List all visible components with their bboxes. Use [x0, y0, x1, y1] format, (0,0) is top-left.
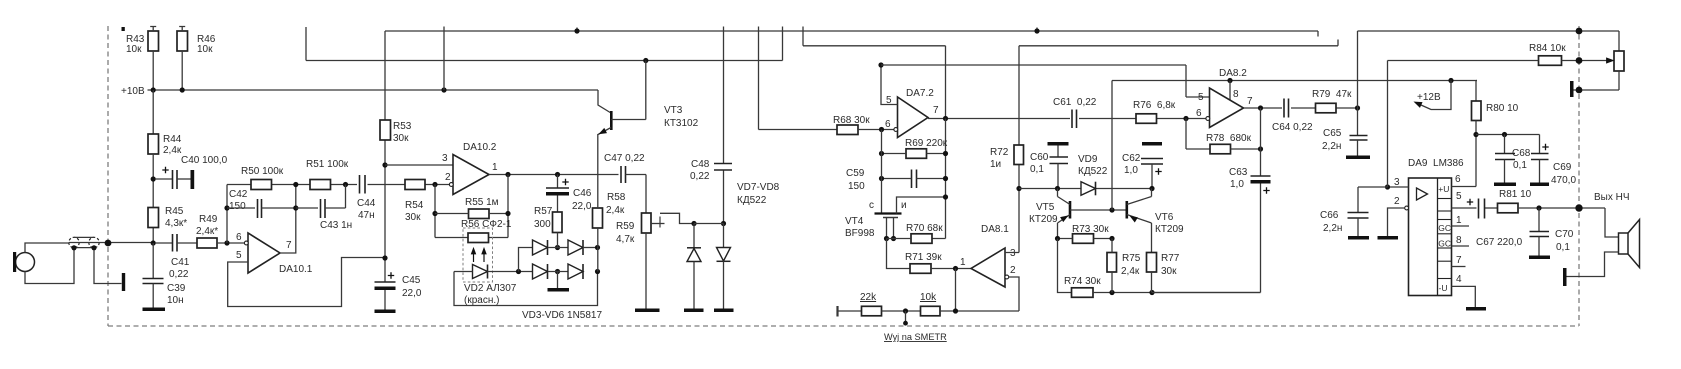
node bridge left	[516, 269, 521, 274]
svg-text:22,0: 22,0	[402, 288, 422, 299]
bus line2	[306, 27, 783, 61]
svg-text:30к: 30к	[405, 212, 421, 223]
svg-text:10к: 10к	[126, 44, 142, 55]
node connector tip	[71, 245, 76, 250]
node VD8/C48	[721, 221, 726, 226]
svg-text:6: 6	[236, 232, 242, 243]
svg-text:6: 6	[1455, 174, 1461, 185]
svg-text:VT6: VT6	[1155, 212, 1174, 223]
light arrows	[473, 251, 475, 262]
resistor R70	[911, 234, 932, 244]
svg-text:R53: R53	[393, 121, 412, 132]
node +12V tap	[1448, 78, 1453, 83]
svg-text:R50 100к: R50 100к	[241, 166, 284, 177]
resistor R74	[1072, 288, 1094, 298]
svg-text:6: 6	[1196, 108, 1202, 119]
svg-text:R84 10к: R84 10к	[1529, 43, 1566, 54]
svg-text:C41: C41	[171, 257, 190, 268]
diode VD5	[568, 240, 583, 255]
node border lineA	[1576, 28, 1583, 35]
wire lineA column	[1357, 31, 1359, 136]
svg-text:C70: C70	[1555, 229, 1574, 240]
node output/C46	[555, 172, 560, 177]
svg-text:2: 2	[1394, 196, 1400, 207]
node border output	[1575, 204, 1582, 211]
svg-text:R51 100к: R51 100к	[306, 159, 349, 170]
resistor R81	[1498, 203, 1519, 213]
svg-text:6: 6	[885, 119, 891, 130]
resistor R80	[1472, 101, 1482, 121]
svg-text:C60: C60	[1030, 152, 1049, 163]
svg-text:1и: 1и	[990, 159, 1001, 170]
node R73 left	[1055, 236, 1060, 241]
wire pin5 feedback loop	[228, 258, 385, 307]
feedback line R50/R51	[227, 184, 450, 186]
svg-text:C47 0,22: C47 0,22	[604, 153, 645, 164]
svg-text:R59: R59	[616, 221, 635, 232]
node VD9 line left	[1016, 186, 1021, 191]
svg-text:R73 30к: R73 30к	[1072, 224, 1109, 235]
svg-text:DA10.2: DA10.2	[463, 142, 497, 153]
node C40 tap	[151, 176, 156, 181]
resistor R75	[1107, 253, 1117, 273]
svg-text:8: 8	[1456, 235, 1462, 246]
resistor R58	[593, 208, 603, 228]
wire R57 to bridge	[557, 233, 559, 248]
dashed box border (left, bottom, right)	[107, 26, 109, 326]
node pin3 DA10.2	[382, 162, 387, 167]
svg-text:C40 100,0: C40 100,0	[181, 155, 228, 166]
svg-text:0,1: 0,1	[1030, 164, 1044, 175]
svg-text:R70 68к: R70 68к	[906, 223, 943, 234]
node pin6 DA7.2	[879, 127, 884, 132]
VD9 bias line	[1019, 188, 1152, 190]
wire base tie riser	[1111, 81, 1113, 211]
svg-text:22k: 22k	[860, 292, 877, 303]
node pin1 DA8.1	[953, 266, 958, 271]
node gate1	[884, 236, 889, 241]
svg-text:C69: C69	[1553, 162, 1572, 173]
svg-text:VD7-VD8: VD7-VD8	[737, 182, 780, 193]
svg-text:(красн.): (красн.)	[464, 295, 499, 306]
wire DA8.2 output	[1244, 107, 1358, 109]
svg-text:+12В: +12В	[1417, 92, 1441, 103]
svg-text:2,2н: 2,2н	[1322, 141, 1341, 152]
svg-text:DA9 LM386: DA9 LM386	[1408, 158, 1464, 169]
diode VD4	[533, 264, 548, 279]
node +10B/VT3 riser	[441, 87, 446, 92]
op-amp DA10.2	[453, 155, 489, 195]
svg-text:10k: 10k	[920, 292, 937, 303]
wire VT3 base	[611, 61, 646, 120]
op-amp DA7.2	[898, 97, 929, 138]
svg-text:C42: C42	[229, 189, 248, 200]
wire R55/R56 column left	[435, 185, 468, 238]
wire pin6 column up	[226, 185, 228, 244]
node VD7	[691, 221, 696, 226]
resistor R53	[380, 120, 391, 140]
node VD3/VD5 R57	[555, 245, 560, 250]
resistor R45	[148, 208, 159, 228]
svg-text:1,0: 1,0	[1124, 165, 1138, 176]
node R50/R51	[293, 182, 298, 187]
svg-text:+10B: +10B	[121, 86, 145, 97]
node C42/C43/output	[293, 205, 298, 210]
wire mic bottom loop	[25, 250, 74, 284]
node R46/+10B	[180, 87, 185, 92]
terminal tick	[836, 306, 838, 317]
svg-text:C63: C63	[1229, 167, 1248, 178]
ground (C70)	[1529, 256, 1550, 260]
svg-text:VT5: VT5	[1036, 202, 1055, 213]
wire column output to R55/R56	[489, 175, 508, 238]
svg-text:C64 0,22: C64 0,22	[1272, 122, 1313, 133]
resistor R57	[553, 212, 563, 233]
resistor R79	[1316, 103, 1337, 113]
wire output DA10.2	[489, 174, 619, 176]
node signal/R45	[151, 240, 156, 245]
node bridge mid ground	[555, 269, 560, 274]
op-amp DA8.2	[1210, 88, 1244, 128]
svg-text:1: 1	[960, 257, 966, 268]
node R77 bottom	[1149, 290, 1154, 295]
ground (C40)	[191, 170, 195, 189]
node R80/C68 rail	[1473, 132, 1478, 137]
svg-text:1: 1	[1456, 215, 1462, 226]
node bridge right bottom	[595, 269, 600, 274]
diode VD6	[568, 264, 583, 279]
bus line upper right	[1019, 40, 1338, 146]
svg-text:7: 7	[933, 105, 939, 116]
wire VD2 to bridge	[488, 271, 533, 273]
svg-text:C45: C45	[402, 275, 421, 286]
trimmer R59	[642, 213, 652, 233]
node bias rail left	[878, 62, 883, 67]
node C59 right	[943, 176, 948, 181]
ground (C66)	[1348, 236, 1369, 240]
wire pin6 column	[881, 130, 883, 214]
svg-text:2,4к: 2,4к	[163, 145, 182, 156]
speaker BA1	[1619, 233, 1629, 254]
svg-text:4,3к*: 4,3к*	[165, 218, 187, 229]
node C60/VT5 collector	[1055, 186, 1060, 191]
node border crossing input	[105, 240, 112, 247]
node R69 left	[879, 151, 884, 156]
potentiometer (volume)	[1614, 51, 1624, 71]
node SMETR tap	[903, 308, 908, 313]
wire R49 to pin6	[217, 242, 247, 244]
wire +10B to R44	[152, 90, 154, 134]
svg-text:КТ3102: КТ3102	[664, 118, 699, 129]
svg-text:7: 7	[1247, 96, 1253, 107]
svg-text:VD3-VD6 1N5817: VD3-VD6 1N5817	[522, 310, 602, 321]
wire C47 to R59	[626, 175, 647, 214]
svg-text:R45: R45	[165, 206, 184, 217]
node C70	[1536, 205, 1541, 210]
node pin3	[1385, 184, 1390, 189]
wire pin5 DA7.2	[881, 65, 898, 105]
wire R46 stub top	[179, 27, 185, 32]
wire R84 column	[1387, 61, 1389, 188]
bias line y80	[1112, 80, 1477, 82]
resistor R51	[310, 180, 331, 190]
svg-text:2: 2	[445, 172, 451, 183]
bus line +out upper	[803, 46, 946, 119]
ground (pot)	[1570, 81, 1574, 97]
svg-text:VT4: VT4	[845, 216, 864, 227]
ground (pin2)	[1378, 236, 1399, 240]
svg-text:3: 3	[1010, 248, 1016, 259]
svg-text:R69 220к: R69 220к	[905, 138, 948, 149]
resistor R54	[405, 180, 425, 190]
wire output column to C63	[1260, 108, 1262, 176]
ground (C45)	[375, 310, 396, 314]
svg-text:R77: R77	[1161, 253, 1180, 264]
svg-text:Wyj na SMETR: Wyj na SMETR	[884, 332, 947, 342]
wire output DA10.1 riser	[280, 185, 296, 254]
svg-text:VD2 АЛ307: VD2 АЛ307	[464, 283, 517, 294]
svg-text:R57: R57	[534, 206, 553, 217]
svg-text:2: 2	[1010, 265, 1016, 276]
wire bypass rail	[1476, 134, 1540, 136]
svg-text:470,0: 470,0	[1551, 175, 1576, 186]
wire pin3 DA10.2	[385, 164, 453, 166]
svg-text:и: и	[901, 200, 907, 211]
wire speaker return	[1567, 252, 1619, 277]
svg-text:с: с	[869, 200, 874, 211]
svg-text:7: 7	[1456, 255, 1462, 266]
node C62/VT6 collector	[1149, 186, 1154, 191]
ground (input jack)	[122, 273, 125, 291]
ground (R59)	[635, 309, 660, 313]
wire VT5/VT6 base tie	[1070, 209, 1127, 211]
wire C48 column	[723, 27, 725, 224]
node C45/feedback	[382, 255, 387, 260]
svg-text:C46: C46	[573, 188, 592, 199]
resistor R77	[1147, 253, 1157, 273]
wire line1 risers	[759, 27, 804, 130]
svg-text:R78 680к: R78 680к	[1206, 133, 1252, 144]
svg-text:10н: 10н	[167, 295, 184, 306]
svg-text:0,22: 0,22	[169, 269, 189, 280]
svg-text:300: 300	[534, 219, 551, 230]
op-amp DA8.1 (mirrored)	[971, 248, 1005, 287]
svg-text:Вых НЧ: Вых НЧ	[1594, 192, 1630, 203]
svg-text:КТ209: КТ209	[1155, 224, 1184, 235]
wire pin5/C67 line	[1485, 207, 1498, 209]
wire bridge left riser	[519, 248, 533, 272]
svg-text:150: 150	[848, 181, 865, 192]
svg-text:DA7.2: DA7.2	[906, 88, 934, 99]
node line1 stub B	[1036, 28, 1038, 32]
svg-text:R76 6,8к: R76 6,8к	[1133, 100, 1176, 111]
svg-text:1: 1	[492, 162, 498, 173]
resistor R46	[177, 31, 188, 51]
resistor 10k	[921, 306, 941, 316]
resistor R69	[906, 149, 927, 159]
svg-text:R56 СФ2-1: R56 СФ2-1	[461, 219, 512, 230]
wire VT4 gates	[887, 218, 894, 239]
resistor R55	[469, 209, 490, 219]
node pin6	[224, 240, 229, 245]
wire sleeve to ground	[94, 250, 122, 284]
node R69 right	[943, 151, 948, 156]
node C42 left	[224, 205, 229, 210]
svg-text:DA8.2: DA8.2	[1219, 68, 1247, 79]
svg-text:4,7к: 4,7к	[616, 234, 635, 245]
diode VD8	[723, 224, 725, 248]
ground (bridge)	[548, 288, 570, 292]
node pin6/R78	[1183, 116, 1188, 121]
wire pot bottom	[1574, 71, 1620, 90]
svg-text:5: 5	[1198, 92, 1204, 103]
wire bridge ground stub	[557, 272, 559, 289]
svg-text:R68 30к: R68 30к	[833, 115, 870, 126]
svg-text:-U: -U	[1439, 283, 1448, 293]
svg-text:2,2н: 2,2н	[1323, 223, 1342, 234]
common line	[1093, 292, 1261, 294]
svg-text:C59: C59	[846, 168, 865, 179]
node R43/+10B	[151, 87, 156, 92]
microphone BM1	[16, 253, 35, 272]
node line1 stub A	[576, 28, 578, 32]
svg-text:C48: C48	[691, 159, 710, 170]
svg-text:C39: C39	[167, 283, 186, 294]
svg-text:DA8.1: DA8.1	[981, 224, 1009, 235]
connector XS1 (dashed circles)	[69, 237, 79, 247]
node 10k/pin2	[953, 308, 958, 313]
node R51/C44	[343, 182, 348, 187]
svg-text:R74 30к: R74 30к	[1064, 276, 1101, 287]
node R73 right	[1109, 236, 1114, 241]
svg-text:C61 0,22: C61 0,22	[1053, 97, 1097, 108]
wire VD2 loop	[454, 272, 598, 306]
svg-text:R72: R72	[990, 147, 1009, 158]
wire R84 line	[1388, 60, 1608, 62]
svg-text:C62: C62	[1122, 153, 1141, 164]
node C68	[1502, 132, 1507, 137]
resistor 22k	[862, 306, 882, 316]
resistor R84	[1539, 56, 1562, 66]
resistor R71	[910, 264, 931, 274]
svg-text:КД522: КД522	[1078, 166, 1108, 177]
svg-text:GC: GC	[1438, 239, 1451, 249]
svg-text:+U: +U	[1438, 184, 1449, 194]
svg-text:C67 220,0: C67 220,0	[1476, 237, 1523, 248]
output line	[1518, 208, 1619, 237]
svg-text:R44: R44	[163, 134, 182, 145]
resistor R68	[837, 125, 858, 135]
wire input signal	[69, 242, 153, 244]
photoresistor R56 (opto box)	[463, 228, 493, 282]
svg-text:8: 8	[1233, 89, 1239, 100]
svg-text:VT3: VT3	[664, 105, 683, 116]
svg-text:2,4к: 2,4к	[606, 205, 625, 216]
resistor R50	[251, 180, 272, 190]
svg-text:R71 39к: R71 39к	[905, 252, 942, 263]
node bridge right top	[595, 245, 600, 250]
node border R84	[1576, 57, 1583, 64]
svg-text:0,1: 0,1	[1513, 160, 1527, 171]
svg-text:7: 7	[286, 240, 292, 251]
node gate2	[891, 236, 896, 241]
ground (C65)	[1346, 156, 1370, 160]
svg-text:R81 10: R81 10	[1499, 189, 1532, 200]
svg-text:R55 1м: R55 1м	[465, 197, 499, 208]
svg-text:4: 4	[1456, 274, 1462, 285]
wire R78 branch	[1186, 119, 1210, 150]
wire mic top	[25, 243, 69, 253]
svg-text:R49: R49	[199, 214, 218, 225]
svg-text:10к: 10к	[197, 44, 213, 55]
resistor R43	[148, 31, 159, 51]
node pin8 DA8.2	[1227, 78, 1232, 83]
resistor R49	[197, 238, 217, 248]
resistor R73	[1073, 234, 1094, 244]
wire R43 to +10B	[152, 51, 154, 90]
svg-text:2,4к*: 2,4к*	[196, 226, 218, 237]
svg-text:GC: GC	[1438, 223, 1451, 233]
resistor R44	[148, 134, 159, 154]
node R78/C63	[1258, 146, 1263, 151]
svg-text:КТ209: КТ209	[1029, 214, 1058, 225]
node source/R70	[943, 194, 948, 199]
wire R43 stub top	[150, 27, 156, 32]
svg-text:BF998: BF998	[845, 228, 875, 239]
wire pin3 DA8.1	[1005, 165, 1019, 253]
wire SMETR tap	[905, 311, 907, 322]
resistor R78	[1210, 144, 1231, 154]
wire column pin1 down	[955, 269, 957, 312]
svg-text:R58: R58	[607, 192, 626, 203]
svg-text:C43 1н: C43 1н	[320, 220, 352, 231]
svg-text:5: 5	[236, 250, 242, 261]
resistor R72	[1014, 145, 1024, 165]
wire R68 feed	[759, 129, 838, 131]
node R55 right	[505, 211, 510, 216]
svg-text:30к: 30к	[1161, 266, 1177, 277]
ground (VD7)	[684, 309, 704, 313]
wire feedback column x945	[932, 119, 946, 239]
wire R46 to +10B	[181, 51, 183, 90]
svg-text:C65: C65	[1323, 128, 1342, 139]
svg-text:R75: R75	[1122, 253, 1141, 264]
wire VT4 source	[897, 197, 946, 214]
node R75 bottom	[1109, 290, 1114, 295]
ground (C69)	[1530, 183, 1549, 187]
wire pin8	[1229, 81, 1231, 101]
node output/riser	[943, 116, 948, 121]
wire pin3 to C66	[1358, 187, 1388, 213]
bus line1 top	[385, 31, 1318, 37]
node output/C65/lineA	[1355, 105, 1360, 110]
svg-text:0,1: 0,1	[1556, 242, 1570, 253]
node connector sleeve	[91, 245, 96, 250]
svg-text:C44: C44	[357, 198, 376, 209]
svg-text:22,0: 22,0	[572, 201, 592, 212]
wire VT5 emitter to R74	[1058, 239, 1072, 293]
node output/R78	[1258, 105, 1263, 110]
svg-text:R80 10: R80 10	[1486, 103, 1519, 114]
node R55 left	[432, 211, 437, 216]
svg-text:R79 47к: R79 47к	[1312, 89, 1352, 100]
svg-text:VD9: VD9	[1078, 154, 1098, 165]
wire R44 to C40 node	[152, 154, 154, 243]
ground (VD8)	[714, 309, 734, 313]
ground (speaker)	[1563, 268, 1567, 286]
node base tie	[1109, 207, 1114, 212]
svg-text:3: 3	[442, 153, 448, 164]
